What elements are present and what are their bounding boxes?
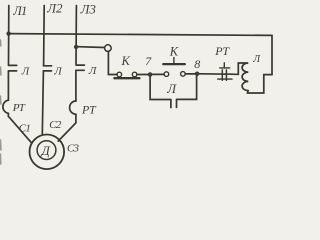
wire phase Л3 lower segment to motor terminal С3 bbox=[58, 114, 76, 141]
wire phase Л2 vertical top segment bbox=[43, 6, 46, 66]
stop button К contact studs bbox=[117, 72, 137, 77]
wire control right border down bbox=[271, 35, 273, 74]
svg-text:7: 7 bbox=[145, 54, 152, 68]
contactor main contact Л (phase 3) bbox=[76, 65, 85, 70]
wire drop to stop button bbox=[108, 51, 117, 74]
thermal heater element РТ (phase 1) bbox=[3, 100, 9, 113]
wire phase Л1 vertical top segment bbox=[8, 6, 10, 66]
svg-text:С1: С1 bbox=[19, 123, 31, 135]
svg-text:Л1: Л1 bbox=[12, 4, 27, 18]
svg-text:К: К bbox=[169, 44, 179, 58]
node junction on Л1 (control tap) bbox=[6, 31, 10, 35]
wire node 8 to coil through РТ contact bbox=[199, 73, 233, 75]
wire phase Л2 lower segment to motor terminal С2 bbox=[42, 71, 43, 134]
wire tap to terminal bbox=[78, 46, 105, 49]
wire stop button to node 7 bbox=[137, 74, 148, 76]
auxiliary self-holding contact Л loop bbox=[150, 76, 197, 108]
start button К bridge bar with stem bbox=[163, 63, 185, 65]
wire phase Л1 middle segment bbox=[7, 71, 9, 100]
node 8 junction bbox=[195, 72, 200, 77]
svg-text:РТ: РТ bbox=[214, 44, 230, 58]
svg-text:Л2: Л2 bbox=[46, 0, 63, 15]
thermal relay РТ release symbol bbox=[220, 63, 230, 68]
svg-text:Л: Л bbox=[252, 54, 261, 65]
terminal circle (wire connection) bbox=[105, 45, 112, 52]
svg-text:Д: Д bbox=[40, 143, 51, 158]
stop button К bridge bar bbox=[114, 77, 139, 79]
motor Д inner circle bbox=[37, 141, 56, 160]
wire node 7 to start button bbox=[152, 73, 164, 75]
svg-text:8: 8 bbox=[194, 57, 200, 71]
svg-text:Л3: Л3 bbox=[80, 1, 97, 16]
wire phase Л3 middle segment bbox=[75, 71, 77, 101]
thermal relay РТ trip contact plates bbox=[222, 70, 226, 80]
wire phase Л1 lower segment to motor terminal С1 bbox=[8, 113, 32, 143]
svg-text:К: К bbox=[121, 54, 131, 68]
svg-text:Л: Л bbox=[21, 66, 30, 78]
svg-text:Л: Л bbox=[88, 65, 97, 77]
motor Д outer circle bbox=[30, 135, 65, 170]
contactor main contact Л (phase 2) bbox=[43, 66, 51, 71]
svg-text:С3: С3 bbox=[67, 143, 80, 155]
wire coil bottom return (staircase) bbox=[248, 75, 273, 93]
svg-text:С2: С2 bbox=[49, 119, 62, 131]
node 7 junction bbox=[148, 72, 153, 77]
thermal relay РТ contact bottom bar bbox=[218, 78, 232, 80]
wire control supply top bbox=[9, 34, 272, 36]
node junction on Л3 (control tap) bbox=[74, 45, 78, 49]
thermal heater element РТ (phase 3) bbox=[70, 101, 76, 114]
start button К contact studs bbox=[164, 72, 185, 77]
contactor main contact Л (phase 1) bbox=[8, 65, 16, 71]
svg-text:РТ: РТ bbox=[12, 102, 26, 114]
svg-text:РТ: РТ bbox=[81, 103, 97, 117]
svg-text:Л: Л bbox=[166, 81, 177, 96]
coil of contactor Л bbox=[233, 63, 248, 91]
svg-text:Л: Л bbox=[53, 66, 62, 78]
wire start button to node 8 bbox=[185, 73, 195, 75]
wire phase Л3 vertical top segment bbox=[75, 6, 77, 65]
start button К stem bbox=[173, 58, 175, 65]
